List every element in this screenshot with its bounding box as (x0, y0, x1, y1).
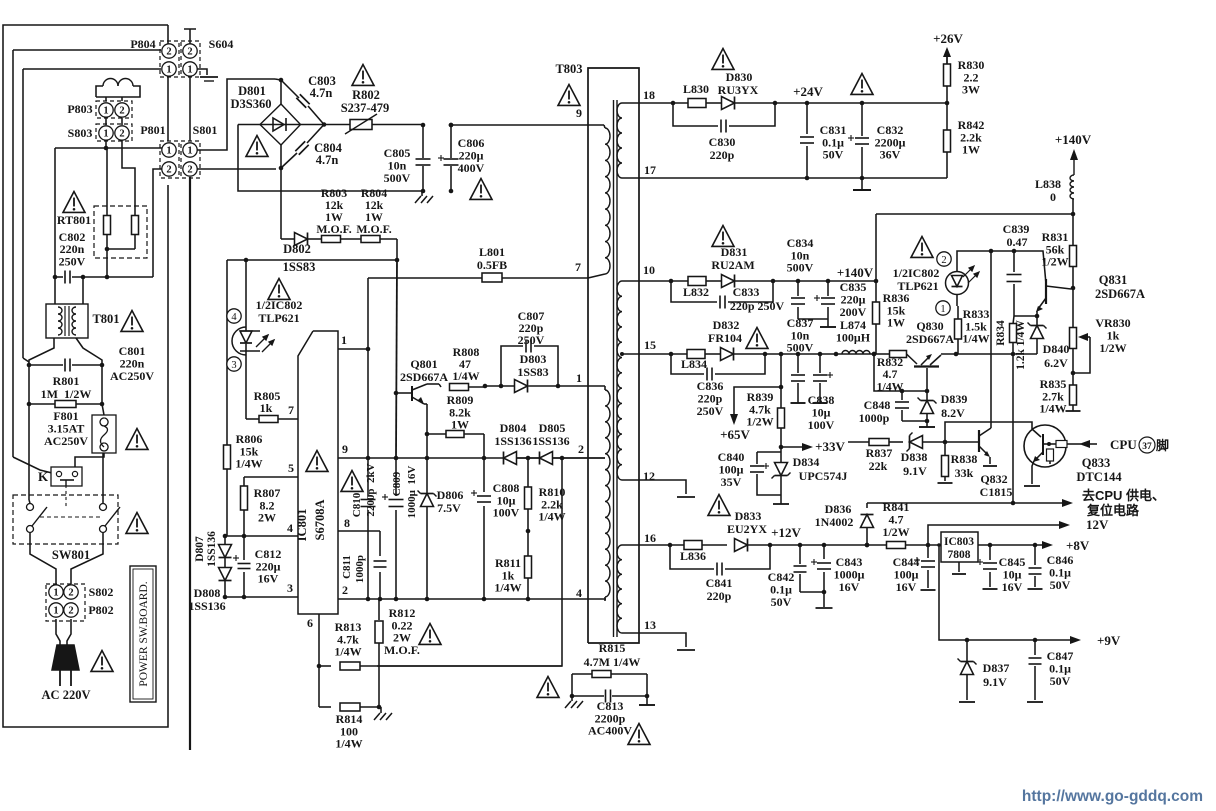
svg-text:2: 2 (166, 47, 171, 58)
wire top nest 2 (12, 50, 14, 457)
svg-text:1: 1 (53, 588, 58, 599)
svg-text:400V: 400V (458, 161, 485, 175)
svg-text:D802: D802 (283, 242, 311, 256)
warning F801 (126, 429, 148, 450)
svg-text:L834: L834 (681, 357, 707, 371)
resistor R841 (887, 542, 906, 549)
wire P804 to P801 (167, 77, 169, 141)
capacitor C810 (361, 499, 376, 501)
svg-text:P803: P803 (67, 102, 92, 116)
svg-text:TLP621: TLP621 (258, 311, 299, 325)
capacitor C831 (806, 103, 808, 134)
svg-text:D836: D836 (825, 502, 852, 516)
T803 core (613, 100, 615, 637)
capacitor C832 (861, 103, 863, 136)
svg-text:250V: 250V (697, 404, 724, 418)
warning left of R815 (537, 677, 559, 698)
capacitor C803 (296, 94, 309, 107)
VR830 wiper (1073, 337, 1090, 373)
svg-text:16V: 16V (896, 580, 917, 594)
svg-text:P801: P801 (140, 123, 165, 137)
svg-text:RT801: RT801 (57, 213, 91, 227)
posistor RT801 dashed box (94, 206, 147, 258)
resistor R803 (322, 236, 341, 243)
ground input filter (421, 191, 423, 196)
rail pin15 (639, 353, 687, 355)
SW801 dashed link (40, 516, 100, 518)
pin 6 stub (318, 614, 320, 666)
svg-text:0: 0 (1050, 190, 1056, 204)
resistor R804 (361, 236, 380, 243)
diode D830 (722, 97, 735, 110)
wire P804 row1 left (23, 68, 161, 70)
pin2 circle (937, 252, 951, 266)
svg-text:M.O.F.: M.O.F. (384, 643, 420, 657)
capacitor C802 (55, 276, 63, 278)
warning C810 (341, 471, 363, 492)
svg-text:1/2W: 1/2W (746, 415, 773, 429)
warning C806 (470, 179, 492, 200)
wire bridge bottom to D802 (280, 168, 282, 239)
svg-text:220p 250V: 220p 250V (730, 299, 785, 313)
svg-text:100V: 100V (493, 506, 520, 520)
capacitor C830 loop (673, 103, 718, 126)
resistor R813 (319, 665, 331, 667)
wire P804 row2 left (13, 49, 161, 51)
T803 aux winding 1-2-4 (604, 386, 606, 390)
svg-text:17: 17 (644, 163, 656, 177)
svg-text:+26V: +26V (933, 31, 963, 46)
left rail (28, 365, 30, 404)
wire x368 vertical (367, 278, 369, 496)
wire left rail down (28, 404, 30, 500)
pin 4 rail (225, 535, 298, 537)
svg-text:1/4W: 1/4W (334, 645, 361, 659)
zener D840 (1031, 326, 1044, 339)
wire goCPU line (867, 502, 1066, 504)
svg-text:D3S360: D3S360 (231, 97, 272, 111)
svg-text:16V: 16V (258, 572, 279, 586)
resistor R807 (243, 477, 245, 486)
svg-text:+140V: +140V (1055, 132, 1092, 147)
svg-text:3W: 3W (962, 83, 980, 97)
svg-text:1/2IC802: 1/2IC802 (256, 298, 303, 312)
svg-text:D840: D840 (1043, 342, 1070, 356)
wire SW to left rail (29, 500, 30, 503)
warning D831 (712, 226, 734, 247)
svg-text:33k: 33k (955, 466, 974, 480)
capacitor C838 (819, 354, 821, 373)
capacitor C843 (823, 545, 825, 559)
svg-text:L838: L838 (1035, 177, 1061, 191)
resistor R842 (946, 103, 948, 130)
IC803 ground (958, 562, 960, 572)
transistor Q831 (1033, 251, 1046, 284)
svg-text:2200p 2kV: 2200p 2kV (365, 463, 377, 516)
svg-text:7.5V: 7.5V (437, 501, 461, 515)
diode D805 (540, 452, 553, 465)
svg-text:M.O.F.: M.O.F. (356, 222, 391, 236)
svg-text:8: 8 (344, 516, 350, 530)
transistor Q833 digital (1024, 425, 1066, 467)
wire pin1 rail (485, 385, 515, 387)
svg-text:RU3YX: RU3YX (718, 83, 759, 97)
svg-text:9.1V: 9.1V (903, 464, 927, 478)
svg-text:D834: D834 (793, 455, 820, 469)
svg-text:9: 9 (342, 442, 348, 456)
bridge rectifier D801 (260, 104, 301, 145)
resistor R837 (848, 441, 869, 443)
pin 1 line (338, 348, 368, 350)
wire R804 down to start rail (396, 239, 398, 260)
svg-text:1M 1/2W: 1M 1/2W (41, 387, 92, 401)
svg-text:CPU: CPU (1110, 437, 1137, 452)
svg-text:TLP621: TLP621 (897, 279, 938, 293)
svg-text:L836: L836 (680, 549, 706, 563)
capacitor C841 loop (670, 545, 714, 569)
svg-text:2: 2 (578, 442, 584, 456)
svg-text:1.2k 1/4W: 1.2k 1/4W (1015, 320, 1027, 370)
wire bridge top to S801 line (275, 79, 281, 80)
resistor R801 (29, 403, 55, 405)
svg-text:D807: D807 (194, 536, 206, 562)
main drive vertical (396, 260, 397, 458)
svg-text:M.O.F.: M.O.F. (316, 222, 351, 236)
svg-text:K: K (38, 469, 49, 484)
resistor R839 branch (780, 354, 782, 409)
resistor R814 (319, 706, 331, 708)
svg-text:6.2V: 6.2V (1044, 356, 1068, 370)
capacitor C813 (572, 695, 604, 697)
inductor L838 (1070, 175, 1074, 199)
power board outer border (3, 25, 168, 727)
svg-text:EU2YX: EU2YX (727, 522, 767, 536)
svg-text:1SS83: 1SS83 (283, 260, 316, 274)
pin 8 line (338, 530, 380, 532)
svg-text:1SS83: 1SS83 (517, 365, 548, 379)
wire S604-2 stub (189, 29, 191, 44)
svg-text:1/2W: 1/2W (1099, 341, 1126, 355)
svg-text:12: 12 (643, 469, 655, 483)
ground R815 left (571, 696, 573, 701)
svg-text:13: 13 (644, 618, 656, 632)
varistor R802 (301, 124, 351, 126)
inductor L830 (688, 99, 706, 108)
svg-text:2: 2 (166, 165, 171, 176)
wire Q830 down (926, 368, 928, 391)
svg-text:1000μ 16V: 1000μ 16V (406, 466, 418, 519)
svg-text:FR104: FR104 (708, 331, 742, 345)
svg-text:500V: 500V (787, 261, 814, 275)
capacitor C834 (797, 281, 799, 296)
svg-text:D806: D806 (437, 488, 464, 502)
warning opto (268, 279, 290, 300)
inductor L801 (482, 273, 502, 282)
zener D837 (966, 640, 968, 661)
capacitor C846 (1034, 545, 1036, 565)
svg-text:+65V: +65V (720, 427, 750, 442)
wire Q832 collector up (990, 251, 992, 428)
svg-text:1: 1 (103, 129, 108, 140)
svg-text:复位电路: 复位电路 (1086, 503, 1140, 518)
wire S801-2 to bridge bottom (197, 168, 276, 170)
svg-text:7: 7 (575, 260, 581, 274)
12V branch (928, 525, 1063, 545)
svg-text:1SS136: 1SS136 (532, 434, 569, 448)
svg-text:0.5FB: 0.5FB (477, 258, 507, 272)
svg-text:T801: T801 (92, 312, 119, 326)
capacitor C806 (450, 125, 452, 158)
svg-text:1/4W: 1/4W (335, 737, 362, 751)
svg-text:2SD667A: 2SD667A (1095, 287, 1145, 301)
svg-text:D805: D805 (539, 421, 566, 435)
svg-text:1: 1 (166, 146, 171, 157)
T803 secondary 10-15-12 (617, 281, 622, 480)
svg-text:4.7n: 4.7n (316, 153, 339, 167)
svg-text:UPC574J: UPC574J (799, 469, 848, 483)
capacitor C809 (389, 499, 404, 501)
wire base net jog (945, 422, 1032, 442)
svg-text:1/2W: 1/2W (1041, 255, 1068, 269)
svg-text:2: 2 (68, 588, 73, 599)
svg-text:R834: R834 (995, 320, 1007, 346)
svg-text:1W: 1W (962, 143, 980, 157)
capacitor C808 (483, 458, 485, 492)
svg-text:1/2W: 1/2W (882, 525, 909, 539)
svg-text:8.2V: 8.2V (941, 406, 965, 420)
capacitor C812 (243, 536, 245, 560)
svg-text:D831: D831 (721, 245, 748, 259)
optocoupler IC802 right half (946, 272, 969, 295)
switch SW801 dashed box (13, 495, 118, 544)
svg-text:RU2AM: RU2AM (711, 258, 754, 272)
wire top nest 3 (22, 69, 24, 358)
capacitor C845 (989, 545, 991, 560)
ground below C832 (861, 178, 863, 190)
wire R834 node down (1012, 354, 1014, 502)
svg-text:Q831: Q831 (1099, 273, 1127, 287)
svg-text:C810: C810 (351, 492, 363, 517)
svg-text:37: 37 (1142, 442, 1152, 452)
wire T801 bottoms (29, 338, 54, 365)
pin4 circle (227, 309, 241, 323)
right rail (101, 365, 103, 404)
svg-text:S604: S604 (209, 37, 234, 51)
inductor L874 (842, 351, 870, 355)
svg-text:C830: C830 (709, 135, 736, 149)
svg-text:2: 2 (68, 606, 73, 617)
svg-text:L832: L832 (683, 285, 709, 299)
pin1 circle (936, 301, 950, 315)
svg-text:Q833: Q833 (1082, 456, 1110, 470)
svg-text:1000p: 1000p (859, 411, 890, 425)
fuse F801 (102, 404, 104, 415)
warning R802 (352, 65, 374, 86)
svg-text:35V: 35V (721, 475, 742, 489)
svg-text:D838: D838 (901, 450, 928, 464)
SW801 contact left (27, 504, 34, 511)
capacitor C801 (29, 364, 63, 366)
svg-text:2: 2 (187, 165, 192, 176)
svg-text:12V: 12V (1086, 517, 1109, 532)
svg-text:L830: L830 (683, 82, 709, 96)
warning R812 (419, 624, 441, 645)
+65V arrow (734, 387, 781, 418)
resistor R834 (1013, 316, 1014, 324)
C848 D839 join gnd (902, 420, 927, 422)
svg-text:C839: C839 (1003, 222, 1030, 236)
svg-text:1N4002: 1N4002 (815, 515, 854, 529)
svg-text:http://www.go-gddq.com: http://www.go-gddq.com (1022, 788, 1203, 805)
svg-text:DTC144: DTC144 (1076, 470, 1122, 484)
svg-text:1: 1 (103, 106, 108, 117)
svg-text:4.7M 1/4W: 4.7M 1/4W (584, 655, 641, 669)
svg-text:1: 1 (576, 371, 582, 385)
svg-text:18: 18 (643, 88, 655, 102)
wire node branch down (54, 148, 56, 277)
svg-text:2SD667A: 2SD667A (400, 370, 448, 384)
main separation line (189, 177, 191, 750)
transistor Q801 (396, 392, 412, 394)
svg-text:50V: 50V (823, 148, 844, 162)
resistor R812 (378, 599, 380, 620)
svg-text:R815: R815 (599, 641, 626, 655)
T803 secondary 18-17 (617, 103, 622, 178)
svg-text:50V: 50V (1050, 674, 1071, 688)
diode D807 (224, 536, 226, 545)
svg-text:C811: C811 (341, 555, 353, 579)
diode D803 (515, 380, 528, 393)
diode D808 (219, 568, 232, 581)
svg-text:250V: 250V (59, 254, 86, 268)
svg-text:去CPU 供电、: 去CPU 供电、 (1082, 488, 1165, 503)
svg-text:50V: 50V (771, 595, 792, 609)
svg-text:4: 4 (231, 312, 237, 323)
resistor R839 (778, 408, 785, 428)
capacitor C807 loop (501, 346, 523, 386)
wire P804-2 from border (167, 25, 169, 44)
wire pin6 node (317, 664, 322, 669)
Q833 internal resistor 2 (1047, 449, 1054, 461)
svg-text:16: 16 (644, 531, 656, 545)
svg-text:P802: P802 (88, 603, 113, 617)
svg-text:1: 1 (187, 146, 192, 157)
capacitor C847 (1034, 640, 1036, 655)
svg-text:SW801: SW801 (52, 548, 90, 562)
resistor R832 (874, 353, 890, 355)
reg box top line (876, 213, 1073, 215)
svg-text:3: 3 (287, 581, 293, 595)
resistor R838 (944, 442, 946, 456)
resistor R835 (1072, 373, 1074, 385)
svg-text:R837: R837 (866, 446, 893, 460)
svg-text:IC801: IC801 (295, 509, 309, 542)
transistor Q830 (907, 354, 918, 364)
svg-text:10: 10 (643, 263, 655, 277)
svg-text:4.7n: 4.7n (310, 86, 333, 100)
transformer T803 frame (588, 68, 639, 643)
svg-text:+9V: +9V (1097, 633, 1121, 648)
svg-text:15: 15 (644, 338, 656, 352)
svg-text:R802: R802 (352, 88, 380, 102)
CPU arrow (1079, 440, 1090, 448)
svg-text:1: 1 (53, 606, 58, 617)
zener D834 (780, 447, 782, 462)
opto pin2 wire (957, 251, 1033, 272)
connector S802 P802 (46, 584, 85, 621)
diode D804 (504, 452, 517, 465)
return-path box (238, 125, 422, 192)
inductor L834 (687, 350, 705, 359)
svg-text:S237-479: S237-479 (341, 101, 390, 115)
svg-text:9.1V: 9.1V (983, 675, 1007, 689)
wire S604 to S801 (189, 77, 191, 141)
warning D833 (708, 495, 730, 516)
svg-text:C848: C848 (864, 398, 891, 412)
svg-text:1: 1 (187, 65, 192, 76)
svg-text:+24V: +24V (793, 84, 823, 99)
rail pin16 (639, 544, 684, 546)
svg-text:2: 2 (119, 129, 124, 140)
svg-text:1W: 1W (451, 418, 469, 432)
relay dashed link (65, 486, 67, 507)
diode D806 vertical (426, 458, 428, 494)
svg-text:22k: 22k (869, 459, 888, 473)
capacitor C844 (927, 545, 929, 558)
warning inside IC801 (306, 451, 328, 472)
svg-text:2: 2 (187, 47, 192, 58)
wires SW to S802 (30, 533, 56, 584)
wires P802 to plug (56, 619, 60, 645)
wire S803-2 down (122, 140, 135, 216)
svg-text:D808: D808 (194, 586, 221, 600)
pin 5 rail (244, 476, 298, 478)
wire nest2 to relay (13, 457, 52, 473)
wire start rail down R806 (226, 260, 228, 536)
svg-text:1SS136: 1SS136 (494, 434, 531, 448)
svg-text:1: 1 (166, 65, 171, 76)
capacitor C842 (799, 545, 801, 564)
capacitor C804 (295, 141, 308, 154)
svg-text:AC250V: AC250V (110, 369, 154, 383)
emitter node wire (1014, 311, 1037, 316)
svg-text:P804: P804 (130, 37, 155, 51)
pin 9 line (338, 457, 605, 459)
warning IC802r (911, 237, 933, 258)
svg-text:100V: 100V (808, 418, 835, 432)
svg-text:2: 2 (119, 106, 124, 117)
wire Q801 emitter down (424, 403, 427, 405)
svg-text:S6708A: S6708A (313, 500, 327, 541)
svg-text:0.47: 0.47 (1007, 235, 1028, 249)
diode D833 (735, 539, 748, 552)
svg-text:L801: L801 (479, 245, 505, 259)
svg-text:16V: 16V (1002, 580, 1023, 594)
opto arrows right (963, 266, 979, 283)
wire S604-1 to ground (197, 69, 207, 75)
inductor L832 (688, 277, 706, 286)
svg-text:220p: 220p (707, 589, 732, 603)
svg-text:R801: R801 (53, 374, 80, 388)
svg-text:36V: 36V (880, 148, 901, 162)
ground R815 right (646, 696, 648, 705)
capacitor C835 (827, 281, 829, 296)
rail pin18 (639, 102, 688, 104)
wire S801-1 to bridge (197, 79, 275, 150)
svg-text:1000p: 1000p (354, 555, 366, 583)
wire RT801 to C802 row (106, 249, 108, 277)
capacitor C840 loop (757, 451, 781, 453)
